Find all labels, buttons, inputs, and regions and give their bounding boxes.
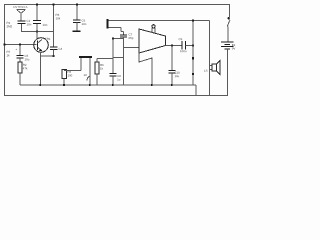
svg-text:9V: 9V [232,46,236,50]
resistor R6 [95,62,99,74]
transistor TR1 [34,38,49,53]
capacitor C2 [33,21,41,24]
svg-text:LS: LS [204,69,208,73]
svg-text:C9: C9 [179,37,183,41]
node top rail R3 [53,4,55,6]
wire C6 branch [76,4,78,20]
wire C7 to rail [123,37,125,85]
switch S1 [227,17,230,26]
wire C6 to bar [76,23,78,32]
capacitor C7 tuning [120,35,127,37]
ground bar [73,31,81,33]
inductor L2 bar [79,56,92,58]
node top rail C6 [76,4,78,6]
wire R6 top [97,59,113,63]
svg-text:2M2: 2M2 [7,24,13,28]
wire L1 bottom lead [109,28,124,36]
svg-text:C4: C4 [58,47,62,51]
capacitor C10 [169,71,176,74]
wire battery to bottom [227,49,229,96]
node inner rail [192,20,194,22]
svg-text:100u: 100u [180,49,187,53]
node output C10 [171,45,173,47]
svg-text:10: 10 [83,73,87,77]
capacitor C6 [73,20,81,23]
labels [6,6,235,82]
wire C7 lower tap [113,38,124,40]
svg-text:1u: 1u [117,77,121,81]
svg-text:10n: 10n [82,22,87,26]
resistor R2 [18,62,22,73]
antenna AE1 [17,10,26,21]
svg-text:100: 100 [67,73,72,77]
wire C4 to emitter wire [53,50,55,57]
wire R3 branch [53,4,55,47]
rail junction dots [40,84,173,86]
wire gnd Z-jog [139,53,152,85]
wire base [4,44,37,46]
wire speaker branch [209,21,211,97]
svg-text:47k: 47k [23,66,28,70]
ground rail [20,85,196,96]
svg-text:10u: 10u [174,74,179,78]
wire C8 to rail [112,76,114,85]
wire L1 top lead / V+ inner rail [109,20,210,22]
tick marks [192,57,194,59]
wire leg hook [87,76,90,81]
node base wire C3 [19,44,21,46]
node speaker feed [192,45,194,47]
wire R2 to rail [19,73,21,85]
wire node down to rail [192,46,194,86]
node tap [112,38,114,40]
inductor L1 bar [107,19,109,29]
wire L2 right leg [89,58,91,85]
node base-bias junction [36,31,38,33]
op-amp IC1 [139,29,166,53]
capacitor C4 [50,47,58,50]
wire C10 to rail [171,73,173,85]
wire V+ rail to node [192,21,194,46]
wire antenna to node [21,24,54,32]
wire C3 branch [19,45,21,56]
capacitor C3 [17,56,24,59]
wire inverting input [113,48,139,58]
wire top rail [4,4,230,6]
resistor R4 [62,70,67,79]
wire R6 to rail [96,74,98,85]
wire collector branch [36,4,38,40]
wire R4 to rail [63,79,65,86]
wire C10 branch [171,46,173,71]
svg-text:10n: 10n [27,22,32,26]
wire C3 to R2 [19,58,21,62]
node top rail C2 [36,4,38,6]
svg-text:ANTENNA: ANTENNA [13,6,28,9]
capacitor C8 [110,74,117,76]
battery B1 [221,42,234,49]
wire emitter stub right [41,55,54,57]
wire C9 to speaker node [186,45,194,47]
wire switch to battery [227,27,229,43]
wire tap down [112,39,114,74]
wire switch top [229,4,231,18]
wire left border [4,4,6,96]
svg-text:10u: 10u [24,57,29,61]
node emitter wire [53,55,55,57]
svg-text:TR1: TR1 [45,37,51,41]
speaker LS1 [210,61,221,75]
capacitor C1 [18,21,26,24]
wire bottom border [4,95,228,97]
gain pins loop [152,25,155,34]
wire emitter [40,52,42,85]
capacitor C9 series [182,41,186,50]
svg-text:10k: 10k [56,16,61,20]
svg-text:10n: 10n [43,23,48,27]
svg-text:65p: 65p [129,36,134,40]
wire R4 top feed [64,58,81,71]
wire output [166,45,183,47]
node left border base wire [4,44,6,46]
